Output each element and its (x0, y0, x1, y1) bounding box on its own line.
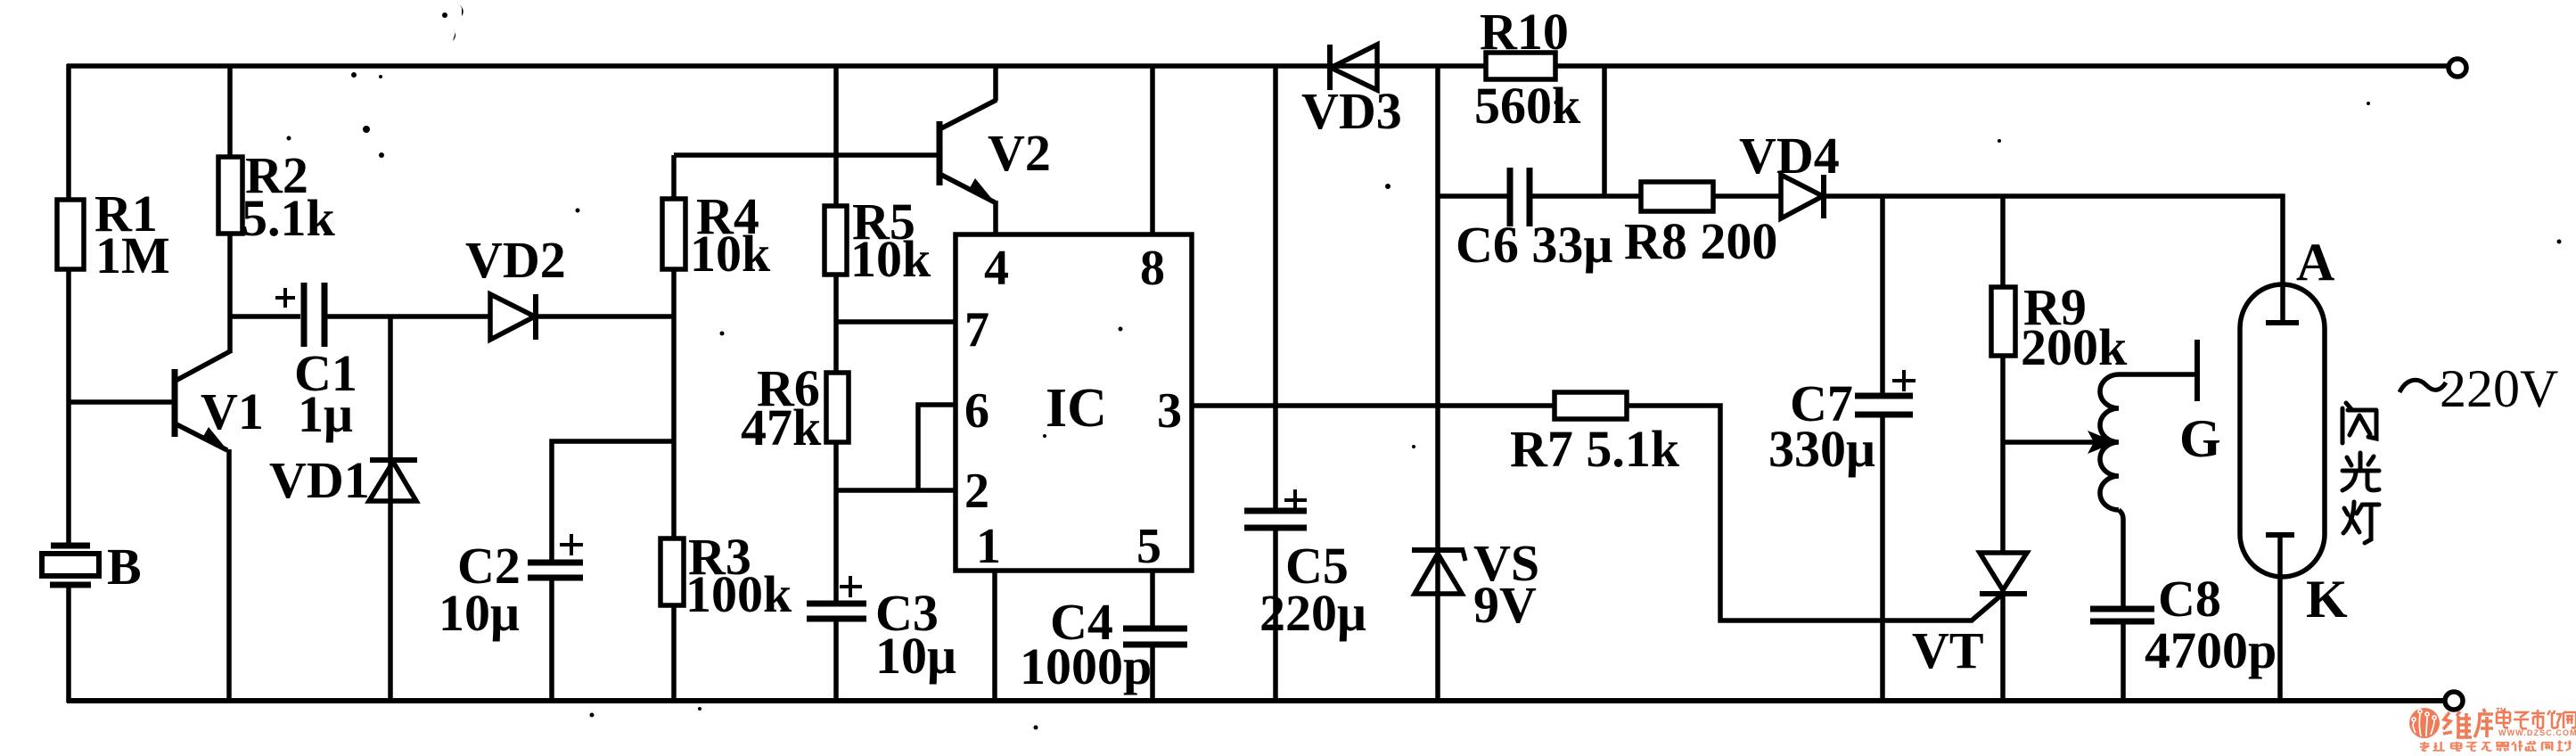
svg-text:560k: 560k (1474, 77, 1581, 135)
svg-text:VD2: VD2 (465, 231, 566, 289)
svg-text:VT: VT (1912, 621, 1984, 679)
wire pin2 (836, 488, 956, 493)
wire R8 to VD4 (1713, 193, 1781, 199)
piezo B (51, 543, 90, 549)
svg-text:R10: R10 (1480, 3, 1569, 61)
watermark logo circle (2409, 708, 2440, 738)
svg-text:5.1k: 5.1k (242, 189, 336, 247)
svg-text:3: 3 (1157, 383, 1182, 439)
svg-text:9V: 9V (1473, 576, 1537, 634)
svg-text:200k: 200k (2021, 318, 2128, 376)
wire pin6 jog (918, 405, 956, 490)
svg-text:100k: 100k (685, 565, 792, 623)
svg-text:2: 2 (964, 464, 989, 519)
svg-text:1000p: 1000p (1020, 637, 1152, 695)
svg-text:4: 4 (984, 241, 1009, 296)
WATERMARK (2409, 707, 2576, 752)
svg-text:C8: C8 (2158, 570, 2221, 628)
svg-text:V2: V2 (988, 124, 1051, 182)
lamp cathode electrode (2266, 532, 2294, 538)
capacitor C6 (1438, 193, 1507, 199)
svg-text:IC: IC (1046, 378, 1107, 439)
svg-text:K: K (2306, 570, 2348, 629)
svg-text:220μ: 220μ (1259, 584, 1366, 642)
thyristor VT (1980, 553, 2027, 590)
resistor R6 (826, 373, 849, 442)
svg-text:1μ: 1μ (298, 385, 353, 443)
svg-text:VD1: VD1 (269, 451, 370, 509)
svg-text:G: G (2179, 409, 2221, 468)
svg-text:5: 5 (1136, 519, 1161, 574)
capacitor C3 (807, 601, 866, 607)
svg-text:VD3: VD3 (1301, 82, 1402, 140)
resistor R7 (1555, 392, 1627, 419)
op-amp IC U1 box (956, 234, 1192, 571)
wire coil to G (2119, 372, 2195, 377)
capacitor C2 (552, 441, 674, 561)
resistor R5 (833, 64, 839, 602)
svg-text:C6 33μ: C6 33μ (1456, 216, 1612, 274)
svg-text:8: 8 (1140, 241, 1165, 296)
svg-text:10k: 10k (850, 230, 931, 288)
capacitor C5 (1273, 64, 1278, 509)
flash lamp tube (2240, 284, 2325, 534)
resistor R1 (57, 200, 84, 269)
wire pin8 (1150, 64, 1155, 234)
resistor R4 (671, 155, 677, 701)
svg-text:6: 6 (964, 383, 989, 439)
svg-text:1: 1 (976, 519, 1001, 574)
wire pin3 to R7 (1192, 403, 1556, 408)
diode VD2 (490, 294, 535, 340)
electrode G (2195, 340, 2200, 401)
label flash lamp 光 (2342, 453, 2379, 490)
svg-text:10k: 10k (690, 225, 771, 283)
svg-text:1M: 1M (95, 226, 170, 284)
wire top rail (67, 63, 2449, 69)
resistor R9 (2000, 196, 2006, 553)
resistor R2 (227, 66, 233, 351)
transistor V1 (69, 399, 173, 405)
wire bottom rail (67, 698, 2444, 703)
wire left rail lower (66, 585, 71, 703)
svg-text:10μ: 10μ (439, 584, 520, 642)
svg-text:330μ: 330μ (1768, 420, 1875, 478)
wire VD4 to lamp (1824, 196, 2283, 323)
wire tap arrow (2003, 440, 2096, 445)
diode VD4 (1781, 175, 1823, 218)
resistor R8 (1641, 182, 1713, 211)
svg-text:47k: 47k (741, 399, 822, 456)
label flash lamp 闪 (2342, 403, 2376, 443)
resistor R3 (660, 538, 684, 605)
svg-text:R8 200: R8 200 (1624, 212, 1777, 270)
svg-text:A: A (2296, 233, 2334, 292)
zener VS (1435, 64, 1440, 703)
watermark 电子市场网 (2497, 710, 2576, 728)
capacitor C8 (2090, 606, 2154, 612)
wire rail drop after R10 (1602, 64, 1607, 196)
zener VD1 (388, 316, 393, 703)
terminal bottom right (2445, 692, 2463, 710)
wire pin1 (992, 571, 997, 703)
wire base bus (674, 152, 939, 158)
svg-text:7: 7 (964, 302, 989, 357)
label flash lamp 灯 (2343, 502, 2379, 543)
watermark 库 (2474, 709, 2493, 737)
resistor R10 (1486, 53, 1555, 79)
wire pin5 (1150, 571, 1155, 627)
wire left rail upper (66, 64, 71, 546)
label ~220V tilde (2400, 380, 2446, 392)
capacitor C4 (1123, 626, 1187, 632)
wire pin7 (836, 319, 956, 325)
svg-text:VD4: VD4 (1739, 127, 1840, 185)
svg-text:R7 5.1k: R7 5.1k (1510, 420, 1680, 478)
wire R7 to gate (1627, 406, 2003, 620)
svg-text:B: B (107, 538, 142, 596)
transistor V2 (937, 121, 943, 185)
svg-text:10μ: 10μ (875, 627, 956, 685)
watermark slogan 专业电子元器件交易网站 (2420, 740, 2572, 751)
svg-text:V1: V1 (201, 382, 264, 440)
terminal top right (2449, 59, 2466, 77)
watermark 维 (2443, 709, 2493, 737)
capacitor C1 (230, 314, 300, 319)
svg-text:220V: 220V (2440, 359, 2558, 418)
svg-text:4700p: 4700p (2145, 621, 2277, 679)
trigger coil T (2100, 374, 2119, 510)
capacitor C7 (1880, 196, 1885, 394)
diode VD3 (1327, 45, 1333, 90)
svg-text:WWW.DZSC.COM: WWW.DZSC.COM (2498, 728, 2576, 737)
lamp anode electrode (2266, 320, 2299, 325)
